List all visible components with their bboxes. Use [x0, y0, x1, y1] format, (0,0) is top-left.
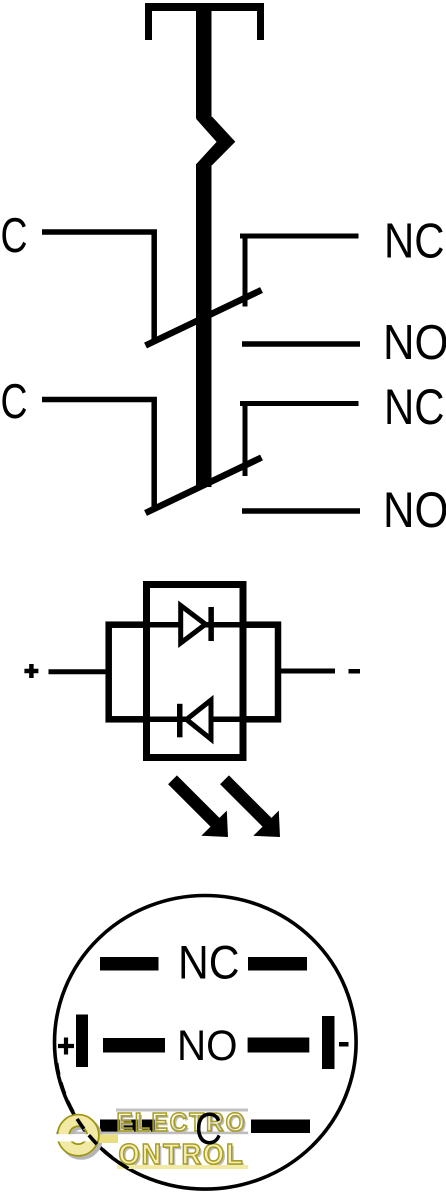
rear plus label [58, 1038, 74, 1055]
watermark mid rule [56, 1132, 248, 1135]
svg-text:C: C [1, 209, 28, 263]
diode D2 (left-pointing) [187, 700, 212, 739]
rear C right terminal [251, 1120, 310, 1134]
watermark underline [117, 1165, 248, 1169]
LED branch rectangle [109, 625, 278, 720]
svg-text:NC: NC [178, 937, 240, 990]
svg-text:NO: NO [383, 316, 446, 370]
light emission arrow 2 [225, 780, 281, 837]
svg-text:C: C [195, 1103, 222, 1154]
actuator plunger [196, 3, 212, 119]
rear right electrode bar [322, 1016, 335, 1069]
pole 2 C wire [42, 400, 154, 512]
LED plus label [24, 664, 38, 678]
pole 2 NC wire [240, 401, 359, 476]
LED left wire [49, 669, 111, 674]
watermark ring arm [90, 1135, 118, 1144]
watermark electrocontrol [56, 1063, 249, 1173]
rear C left terminal [100, 1120, 159, 1134]
circle arc dashes over watermark [57, 1063, 130, 1170]
svg-text:C: C [1, 375, 28, 429]
bottom branch wire through box [112, 717, 275, 723]
LED right wire [277, 669, 335, 674]
diode D1 cathode bar [208, 607, 214, 641]
svg-text:NO: NO [383, 481, 446, 538]
top branch wire through box [112, 622, 275, 628]
rear minus label [339, 1042, 349, 1047]
pushbutton actuator top bar [145, 3, 264, 40]
svg-text:NO: NO [177, 1022, 238, 1070]
button rear view circle [55, 896, 357, 1190]
watermark ring shadow [66, 1123, 96, 1153]
pole 1 C wire [42, 232, 154, 343]
light emission arrow 1 [173, 780, 229, 837]
svg-text:NC: NC [384, 215, 445, 269]
rear NC right terminal [248, 957, 307, 971]
svg-text:ELECTRO: ELECTRO [117, 1107, 247, 1137]
rear left electrode bar [76, 1015, 88, 1068]
watermark ring slash [56, 1134, 90, 1141]
watermark top rule [116, 1109, 248, 1112]
rear NC left terminal [100, 957, 159, 971]
rear NO left terminal [103, 1038, 165, 1053]
watermark ring fill [63, 1120, 93, 1150]
pole 2 moving contact arm [146, 458, 262, 514]
pole 2 NO wire [242, 508, 360, 514]
latching detent zigzag [196, 117, 235, 166]
diode D1 (right-pointing) [181, 606, 206, 644]
LED component box [147, 585, 244, 758]
switch shaft [196, 164, 212, 487]
watermark ring outer [63, 1120, 93, 1150]
pole 1 moving contact arm [146, 290, 262, 346]
svg-text:NC: NC [384, 379, 445, 435]
pole 1 NO wire [242, 341, 360, 347]
diode D2 cathode bar [177, 704, 183, 738]
rear NO right terminal [248, 1038, 310, 1053]
pole 1 NC wire [240, 234, 359, 307]
LED minus label [349, 669, 361, 674]
